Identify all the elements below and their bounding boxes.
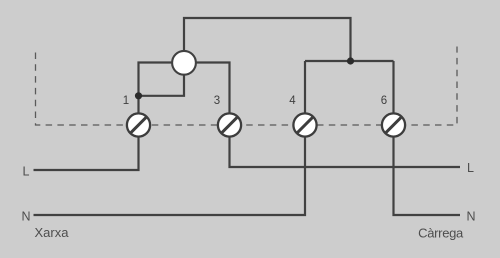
svg-text:Càrrega: Càrrega bbox=[418, 226, 464, 241]
terminal 4 bbox=[293, 113, 316, 136]
terminal 1 bbox=[127, 113, 150, 136]
terminal 3 bbox=[218, 113, 241, 136]
meter boundary (dashed enclosure) bbox=[36, 47, 458, 126]
wire: circle top to junction B (over the top) bbox=[184, 18, 351, 61]
svg-text:3: 3 bbox=[214, 95, 220, 107]
svg-text:N: N bbox=[22, 210, 31, 224]
svg-text:4: 4 bbox=[289, 95, 296, 107]
wire: circle right down to terminal 3 bbox=[186, 63, 230, 115]
wire: terminal 4 top stub bbox=[304, 61, 306, 114]
junction A (node at terminal 1 branch) bbox=[135, 92, 142, 99]
terminal 6 bbox=[382, 113, 405, 136]
svg-text:L: L bbox=[467, 161, 474, 175]
wire: node A to circle bottom bbox=[139, 73, 185, 96]
wire: left N line to terminal 4 bottom bbox=[34, 136, 306, 215]
wire: terminal 3 bottom to right L line bbox=[230, 136, 461, 167]
svg-text:1: 1 bbox=[123, 95, 129, 107]
junction B (node on connector between 4 and 6) bbox=[347, 57, 354, 64]
wire: circle left to node A down to terminal 1 bbox=[139, 63, 183, 115]
svg-text:N: N bbox=[467, 210, 476, 224]
wire: left L line to terminal 1 bottom bbox=[34, 136, 139, 170]
svg-text:6: 6 bbox=[381, 95, 387, 107]
svg-text:L: L bbox=[23, 165, 30, 179]
wire: connector between terminal 4 and terminal 6 tops bbox=[305, 60, 394, 62]
meter coil (voltage coil circle) bbox=[172, 51, 196, 75]
svg-text:Xarxa: Xarxa bbox=[35, 225, 70, 240]
wire: terminal 6 top stub bbox=[392, 61, 394, 114]
wire: terminal 6 bottom to right N line bbox=[394, 136, 461, 215]
